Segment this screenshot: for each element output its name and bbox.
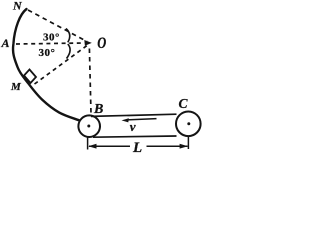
dimension line right segment	[147, 145, 188, 147]
dashed line M to O	[35, 46, 88, 85]
belt velocity arrowhead (left)	[122, 118, 129, 122]
dimension arrowhead right	[180, 144, 188, 149]
angle arc lower 30	[67, 44, 71, 59]
belt top line	[91, 114, 177, 116]
left extension line below pulley B	[87, 138, 89, 150]
svg-text:B: B	[93, 102, 103, 117]
belt bottom line	[93, 136, 177, 137]
dimension line left segment	[89, 145, 130, 147]
dimension arrowhead left	[88, 144, 96, 149]
svg-text:A: A	[1, 36, 10, 50]
svg-text:30°: 30°	[43, 32, 60, 44]
svg-text:M: M	[10, 81, 22, 93]
svg-text:O: O	[97, 35, 106, 53]
right pulley axle dot	[187, 122, 190, 125]
vertical dashed line O to B	[89, 49, 91, 114]
belt velocity arrow	[126, 119, 157, 120]
dashed line A to O	[16, 43, 84, 44]
svg-text:N: N	[12, 0, 23, 13]
angle arc upper 30	[66, 29, 70, 43]
left pulley axle dot	[87, 125, 90, 128]
block at M	[24, 70, 36, 84]
svg-text:L: L	[132, 140, 142, 156]
left pulley at B	[78, 115, 100, 137]
curved track N-A-M-B	[13, 9, 79, 120]
svg-text:C: C	[179, 96, 189, 111]
dashed line N to O	[28, 10, 87, 42]
right pulley at C	[176, 112, 201, 137]
arrowhead at O	[84, 40, 92, 46]
svg-text:v: v	[130, 119, 136, 134]
svg-text:30°: 30°	[39, 47, 56, 59]
right extension line below pulley C	[187, 137, 189, 150]
